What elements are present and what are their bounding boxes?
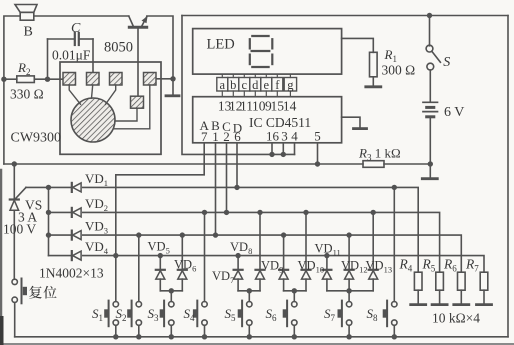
label 10kohm x4 bbox=[432, 311, 480, 326]
wire pin5 stub bbox=[317, 143, 319, 164]
junction VD5/rowA bbox=[158, 253, 163, 258]
svg-text:b: b bbox=[230, 78, 236, 92]
ground under R1 bbox=[366, 85, 381, 88]
junction pin3 bbox=[281, 152, 286, 157]
svg-text:16: 16 bbox=[266, 129, 280, 144]
resistor R7 bbox=[465, 257, 492, 305]
switch S6 push button bbox=[266, 301, 297, 340]
wire pin2 net C bbox=[226, 143, 228, 213]
svg-text:1N4002×13: 1N4002×13 bbox=[39, 266, 104, 281]
svg-text:5: 5 bbox=[314, 129, 321, 144]
diode VD13 bbox=[369, 212, 378, 290]
wire IC pin8 to ground bbox=[342, 117, 360, 127]
junction VD7/rowA bbox=[235, 253, 240, 258]
svg-text:10: 10 bbox=[252, 99, 266, 114]
svg-text:d: d bbox=[252, 78, 259, 92]
switch S8 push button bbox=[367, 301, 397, 340]
CW9300 die circle bbox=[71, 98, 115, 142]
node row net (VD3) bbox=[49, 234, 72, 236]
diode VD11 bbox=[322, 256, 331, 291]
op-amp U1 IC CD4511 box bbox=[193, 97, 342, 144]
svg-text:330 Ω: 330 Ω bbox=[10, 87, 44, 102]
svg-text:g: g bbox=[287, 78, 294, 92]
ground battery net bbox=[429, 164, 431, 178]
wire VD5+VD6 join to S3 bbox=[160, 291, 182, 302]
segment box g bbox=[284, 74, 296, 97]
wire CW9300 pin4 pad to emitter line bbox=[156, 78, 173, 80]
transistor 8050 bbox=[104, 16, 148, 56]
resistor R3 1kohm bbox=[358, 146, 430, 168]
CW9300 pad 1 bbox=[63, 73, 76, 86]
svg-text:LED: LED bbox=[207, 37, 235, 53]
switch S7 push button bbox=[324, 301, 352, 340]
CW9300 bond wires bbox=[69, 85, 150, 129]
wire S4 drop bbox=[204, 212, 206, 301]
wire speaker right to transistor collector bbox=[34, 15, 129, 17]
junction pin1/rowB bbox=[213, 232, 218, 237]
segment box b bbox=[228, 74, 239, 97]
segment box a bbox=[217, 74, 228, 97]
capacitor C 0.01uF bbox=[48, 21, 94, 79]
label VD5 bbox=[148, 240, 170, 256]
svg-text:S: S bbox=[443, 55, 450, 70]
wire LED box to R1 bbox=[342, 38, 374, 52]
LED display box bbox=[193, 29, 342, 75]
svg-text:C: C bbox=[71, 21, 81, 36]
seven segment glyph bbox=[250, 36, 272, 67]
svg-text:10 kΩ×4: 10 kΩ×4 bbox=[432, 311, 480, 326]
svg-text:300 Ω: 300 Ω bbox=[382, 63, 416, 78]
junction VD9/rowB bbox=[281, 232, 286, 237]
diode VD2 bbox=[72, 196, 108, 217]
svg-text:1: 1 bbox=[212, 129, 219, 144]
switch S4 push button bbox=[184, 301, 208, 340]
junction S2/rowB bbox=[136, 232, 141, 237]
junction VD8/rowC bbox=[257, 210, 262, 215]
switch S5 push button bbox=[225, 301, 253, 340]
wire bottom +rail bbox=[15, 336, 508, 338]
junction VS branch bbox=[12, 161, 17, 166]
diode VD9 bbox=[279, 235, 288, 291]
junction S1-pin7/rowA bbox=[113, 253, 118, 258]
segment box f bbox=[272, 74, 283, 97]
resistor R2 330ohm bbox=[4, 60, 63, 102]
diode VD5 bbox=[156, 256, 165, 291]
diode VD4 bbox=[72, 239, 109, 260]
svg-text:a: a bbox=[220, 78, 226, 92]
svg-text:8050: 8050 bbox=[104, 40, 133, 56]
battery 6V bbox=[423, 102, 464, 164]
svg-text:CW9300: CW9300 bbox=[11, 131, 62, 146]
label VD6 bbox=[174, 257, 196, 273]
label VD11 bbox=[315, 242, 341, 258]
CW9300 pad 2 bbox=[87, 73, 100, 86]
wire speaker left to left rail bbox=[4, 16, 20, 164]
node row net (VD1) bbox=[26, 186, 71, 188]
wire emitter to vertical drop bbox=[147, 16, 173, 95]
wire S2 drop bbox=[138, 235, 140, 301]
label VD12 bbox=[341, 258, 368, 274]
switch S2 push button bbox=[116, 301, 142, 340]
wire VD11+VD12+VD13 join to S7 bbox=[327, 291, 373, 302]
junction emitter/pad bbox=[170, 76, 175, 81]
junction VD13/rowC bbox=[371, 210, 376, 215]
svg-text:6: 6 bbox=[234, 129, 241, 144]
junction VD6/rowB bbox=[180, 232, 185, 237]
switch S bbox=[426, 16, 450, 101]
diode VD7 bbox=[234, 256, 243, 291]
segment box c bbox=[239, 74, 250, 97]
junction C / R2 net bbox=[45, 77, 50, 82]
segment box e bbox=[261, 74, 272, 97]
wire pin7 net A route bbox=[116, 143, 204, 256]
wire VD9+VD10 join to S6 bbox=[284, 291, 306, 302]
wire pin16 stub bbox=[271, 143, 273, 155]
resistor R1 300ohm bbox=[370, 47, 416, 86]
resistor R5 bbox=[422, 257, 448, 305]
node row net (VD2) bbox=[49, 211, 72, 213]
wire VD7+VD8 join to S5 bbox=[238, 291, 260, 302]
svg-text:c: c bbox=[242, 78, 248, 92]
junction pin6/rowD bbox=[234, 185, 239, 190]
wire pin1 net B bbox=[215, 143, 217, 235]
wire gate cathode bus bbox=[48, 187, 50, 255]
ground under emitter line bbox=[166, 94, 179, 97]
speaker B bbox=[15, 5, 37, 40]
junction bus row2 bbox=[46, 210, 51, 215]
label 1N4002x13 bbox=[39, 266, 104, 281]
wire right edge rail bbox=[507, 16, 509, 337]
diode VD1 bbox=[72, 171, 108, 192]
junction pin2/rowC bbox=[224, 210, 229, 215]
svg-text:0.01μF: 0.01μF bbox=[52, 48, 91, 63]
label VD7 bbox=[212, 269, 234, 285]
CW9300 pad 5 (base) bbox=[131, 96, 144, 108]
thyristor VS bbox=[3, 164, 42, 279]
label VD8 bbox=[230, 240, 252, 256]
switch S3 push button bbox=[148, 301, 175, 340]
segment box d bbox=[250, 74, 261, 97]
junction VD12/rowB bbox=[346, 232, 351, 237]
diode VD6 bbox=[178, 235, 187, 291]
push button reset (fuwei) bbox=[12, 279, 57, 337]
svg-text:R3 1 kΩ: R3 1 kΩ bbox=[358, 146, 401, 163]
junction bus row1 bbox=[46, 185, 51, 190]
junction switch tap bbox=[427, 13, 432, 18]
junction bus row3 bbox=[46, 232, 51, 237]
svg-text:4: 4 bbox=[291, 129, 298, 144]
svg-text:6 V: 6 V bbox=[444, 105, 464, 120]
junction left rail / R2 bbox=[1, 77, 6, 82]
IC CW9300 music chip bbox=[11, 62, 162, 154]
wire S1 drop bbox=[115, 256, 117, 302]
wire transistor base down bbox=[137, 29, 139, 97]
svg-text:7: 7 bbox=[201, 129, 208, 144]
junction pin5 bbox=[315, 161, 320, 166]
CW9300 pad 3 bbox=[110, 73, 123, 86]
diode VD3 bbox=[72, 219, 108, 240]
diode VD12 bbox=[345, 235, 354, 291]
wire VCC drop to pins 16/3/4 bbox=[182, 16, 295, 155]
junction S4/rowC bbox=[202, 210, 207, 215]
svg-text:3: 3 bbox=[281, 129, 288, 144]
resistor R6 bbox=[443, 257, 469, 305]
wire pin6 net D bbox=[236, 143, 238, 188]
resistor R4 bbox=[399, 257, 426, 305]
CW9300 pad 4 bbox=[144, 73, 157, 86]
wire top +rail bbox=[182, 15, 508, 17]
junction VD10/rowC bbox=[303, 210, 308, 215]
svg-text:IC CD4511: IC CD4511 bbox=[249, 115, 311, 130]
svg-text:B: B bbox=[24, 25, 33, 40]
switch S1 push button bbox=[92, 301, 119, 340]
wire S8 drop bbox=[393, 187, 395, 301]
wire battery-minus bus bbox=[4, 163, 363, 165]
node row net (VD4) bbox=[49, 255, 72, 257]
label VD10 bbox=[298, 258, 325, 274]
junction pin16 bbox=[269, 152, 274, 157]
svg-text:2: 2 bbox=[223, 129, 230, 144]
diode VD8 bbox=[256, 212, 265, 290]
svg-text:100 V: 100 V bbox=[3, 222, 36, 237]
wire pin4 stub bbox=[294, 143, 296, 155]
junction battery/ground bbox=[428, 161, 433, 166]
label VD13 bbox=[366, 258, 393, 274]
svg-text:14: 14 bbox=[283, 99, 297, 114]
junction S8/rowD bbox=[392, 185, 397, 190]
junction VD11/rowA bbox=[324, 253, 329, 258]
ground IC pin8 bbox=[354, 127, 367, 130]
diode VD10 bbox=[302, 212, 311, 290]
svg-text:e: e bbox=[264, 78, 270, 92]
label VD9 bbox=[261, 258, 283, 274]
wire pin3 stub bbox=[282, 143, 284, 155]
